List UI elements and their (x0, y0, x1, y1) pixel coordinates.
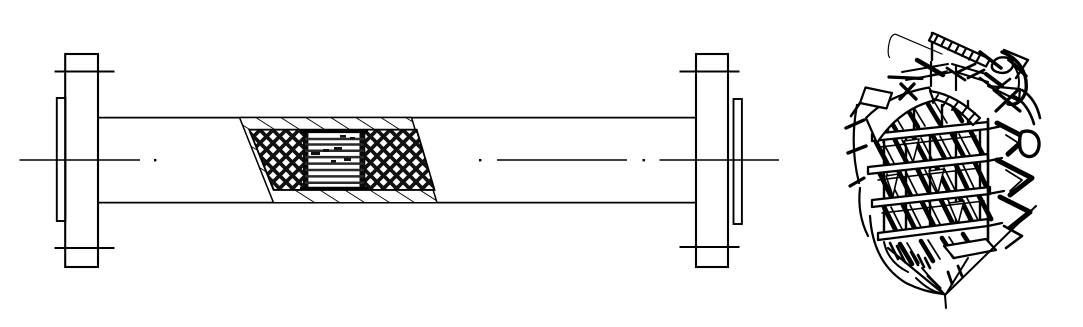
top band ticks (934, 35, 980, 63)
left lower arc (859, 188, 868, 236)
left flange plate (65, 54, 98, 267)
right flange plate (696, 54, 728, 267)
right flange raised face (734, 99, 742, 224)
white gap wedge 2 (929, 169, 944, 193)
shelf plate 4 (878, 219, 988, 240)
stack corner edge (987, 119, 990, 250)
center element top edge (300, 131, 368, 134)
right fold 3 (1000, 197, 1030, 228)
upper thin line (922, 71, 947, 78)
left white plate (860, 88, 892, 109)
left flange bottom bolt line (55, 247, 115, 249)
top post lower (931, 62, 956, 90)
centerline dash 3 (660, 159, 780, 161)
right comma band (1002, 52, 1026, 104)
right cross-hatched element (360, 128, 440, 192)
left plate tail (851, 103, 860, 116)
blades row 3 (884, 196, 991, 231)
left tip 3 (850, 178, 864, 186)
top mid plate lines (902, 64, 988, 82)
blade edges row 2 (887, 165, 975, 198)
shelf plate 3 (872, 187, 990, 207)
right comma inner (1008, 60, 1019, 90)
blades row 4 (900, 234, 974, 264)
posts tier 1 (884, 130, 980, 165)
bottom stem (945, 295, 946, 308)
left flange raised face (57, 98, 66, 221)
mixer element inner parallelogram (250, 130, 435, 190)
cone right line (945, 206, 1036, 295)
blade edges row 1 (883, 134, 971, 165)
white gap wedge 3 (949, 201, 964, 224)
right flange top bolt line (680, 71, 740, 73)
right steep band (1014, 90, 1040, 124)
right element hatch fill (360, 128, 440, 192)
left flange top bolt line (55, 71, 115, 73)
cone left line (888, 248, 945, 295)
blades row 1 (876, 132, 983, 165)
center element right bar (360, 130, 366, 190)
pipe top wall (97, 117, 697, 119)
posts tier 3 (884, 195, 980, 232)
right fold 1 (997, 123, 1026, 154)
center x node (900, 84, 916, 99)
left cross-hatched element (245, 128, 310, 192)
right chevron small 2 (1006, 170, 1022, 191)
blade edges row 4 (907, 237, 960, 263)
cone inner lines (922, 258, 968, 295)
top mid chunk (947, 64, 984, 80)
bottom fan ticks (890, 243, 930, 268)
shelf 3 shadow (882, 201, 984, 213)
top right wedge (980, 52, 1001, 68)
top left wedge (917, 60, 943, 75)
center element ladder lines (305, 139, 364, 183)
left silhouette arc (854, 105, 859, 183)
bottom white slab 2 (944, 239, 996, 258)
bottom tip wedges (928, 266, 962, 288)
shelf plate 1 (872, 122, 988, 141)
centerline dot 1 (154, 159, 156, 161)
right flange bottom bolt line (680, 246, 740, 248)
mid ribbon ticks (933, 95, 975, 120)
mid ribbon white band (866, 88, 936, 144)
bottom inner arc (884, 242, 908, 272)
left element hatch fill (245, 128, 310, 192)
top right flag (1004, 50, 1028, 78)
shelf plate 2 (868, 154, 988, 174)
right fold 2 (997, 160, 1032, 195)
top checkered band (929, 33, 990, 67)
posts tier 2 (884, 162, 980, 199)
blades row 2 (880, 163, 987, 198)
centerline dot 3 (643, 159, 645, 161)
center element bottom edge (300, 187, 368, 190)
white gap wedge 4 (886, 174, 898, 196)
right nose loop (1020, 131, 1039, 156)
centerline dot 2 (479, 159, 481, 161)
housing outline (240, 118, 438, 203)
mixer housing outer parallelogram (180, 117, 545, 206)
mid hatched ribbon band (930, 91, 980, 125)
right knot wedge 2 (1014, 64, 1026, 76)
3d mixer element isometric view (846, 33, 1040, 308)
center element left bar (303, 130, 308, 190)
blades above shelf 1 (884, 101, 962, 130)
corner stubs (988, 126, 1004, 226)
bottom tip arc (916, 278, 944, 294)
right fold 4 (1004, 226, 1022, 248)
right knot wedge 1 (986, 74, 1002, 86)
top right ring (992, 57, 1013, 73)
hook wire (888, 34, 942, 57)
top post (931, 33, 933, 60)
centerline dash 2 (497, 159, 627, 161)
left tip 1 (846, 120, 864, 128)
right chevron small 1 (1006, 135, 1020, 156)
white gap wedge 1 (904, 139, 919, 162)
upper chevron (980, 78, 1010, 90)
blade edges row 3 (891, 198, 979, 231)
upper thick bar (889, 77, 922, 79)
upper triangle (988, 86, 1020, 101)
blade edges above shelf 1 (891, 103, 947, 129)
center element weld marks (311, 135, 355, 162)
posts tier 0 (888, 101, 968, 135)
shelf 1 shadow (880, 136, 976, 147)
housing wall hatch lines (180, 117, 545, 206)
left tip 2 (848, 146, 866, 153)
right x node (994, 90, 1020, 111)
bottom left arc (870, 216, 943, 294)
shelf 2 shadow (878, 168, 980, 180)
pipe bottom wall (97, 202, 697, 204)
centerline dash 1 (20, 159, 141, 161)
